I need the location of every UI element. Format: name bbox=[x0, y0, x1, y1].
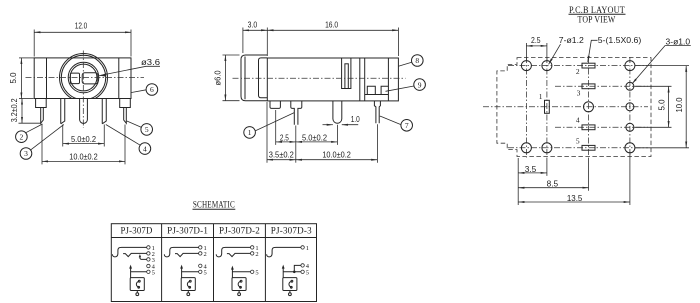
body outline bbox=[34, 58, 131, 99]
svg-text:3.5±0.2: 3.5±0.2 bbox=[269, 151, 295, 160]
dim 13.5 pcb ext bbox=[629, 152, 631, 205]
pin 4 bbox=[102, 99, 106, 124]
cell 3 PJ-307D-2 bbox=[216, 245, 258, 296]
balloon 5 bbox=[127, 121, 153, 135]
dim 2.5 side ext bbox=[275, 110, 277, 145]
svg-text:8: 8 bbox=[415, 56, 419, 65]
wire switch 2 bbox=[123, 253, 147, 256]
wire 5 bbox=[182, 271, 199, 273]
svg-text:8.5: 8.5 bbox=[547, 180, 559, 189]
dim 8.5 pcb line bbox=[518, 187, 588, 189]
svg-text:5: 5 bbox=[204, 269, 207, 276]
pad c3r5 rect bbox=[582, 145, 595, 150]
svg-text:PJ-307D-2: PJ-307D-2 bbox=[219, 226, 260, 236]
terminal 5 bbox=[251, 270, 254, 273]
svg-text:5.0±0.2: 5.0±0.2 bbox=[71, 135, 97, 144]
svg-text:PJ-307D: PJ-307D bbox=[121, 226, 153, 236]
terminal 4 bbox=[147, 264, 150, 267]
terminal 1 bbox=[301, 246, 304, 249]
row 1 centerline bbox=[508, 65, 648, 67]
svg-text:3: 3 bbox=[577, 89, 581, 98]
dim 5.0+-0.2 extensions bbox=[62, 125, 64, 147]
dim 5.0 pcb ext bbox=[635, 85, 672, 87]
left post line bbox=[46, 58, 48, 99]
dim 12.0 line bbox=[34, 31, 131, 33]
dim 3.5+-0.2 line bbox=[267, 159, 296, 161]
column divider 2 bbox=[213, 224, 215, 302]
terminal 2 bbox=[251, 252, 254, 255]
sleeve arrow bbox=[231, 266, 234, 270]
dim 2.5 pcb ext bbox=[525, 43, 527, 61]
dim 3.0 line bbox=[243, 29, 267, 31]
pad c1r1 bbox=[521, 61, 531, 71]
pad c4r5 bbox=[625, 143, 635, 153]
dim 5.0 side ext bbox=[336, 125, 338, 145]
sleeve arm bbox=[181, 268, 183, 278]
pin 5 stub bbox=[120, 99, 131, 108]
dim 12.0 extension lines bbox=[33, 30, 35, 57]
svg-text:3.5: 3.5 bbox=[525, 165, 537, 174]
svg-text:2: 2 bbox=[20, 132, 24, 141]
wire tip contact bbox=[267, 247, 301, 257]
face ring bbox=[259, 58, 268, 98]
svg-text:5: 5 bbox=[306, 269, 309, 276]
body bbox=[267, 58, 398, 101]
horizontal centerline bbox=[26, 77, 145, 79]
balloon 4 bbox=[106, 125, 151, 155]
row 4 centerline bbox=[555, 126, 648, 128]
dim 3.2 line bbox=[21, 99, 23, 124]
dim 3.5 pcb line bbox=[518, 172, 547, 174]
svg-text:4: 4 bbox=[576, 116, 580, 125]
svg-text:5.0±0.2: 5.0±0.2 bbox=[302, 134, 328, 143]
sleeve box bbox=[181, 278, 195, 291]
cell 2 PJ-307D-1 bbox=[164, 245, 207, 296]
svg-text:5.0: 5.0 bbox=[9, 72, 18, 84]
column divider 3 bbox=[264, 224, 266, 302]
svg-text:6: 6 bbox=[150, 85, 154, 94]
tip contact right bbox=[82, 73, 98, 84]
right post line bbox=[118, 58, 120, 99]
sleeve box bbox=[130, 278, 144, 291]
svg-text:5.0: 5.0 bbox=[657, 99, 666, 111]
wire tip contact bbox=[164, 247, 198, 257]
sleeve arrow bbox=[129, 265, 132, 269]
pad c1r5 bbox=[521, 143, 531, 153]
dim 13.5 pcb line bbox=[518, 201, 630, 203]
svg-text:3: 3 bbox=[24, 149, 28, 158]
pin2 leg ext bbox=[295, 126, 297, 163]
dim dia6.0 line bbox=[224, 55, 226, 101]
wire tip contact bbox=[216, 247, 250, 257]
dim 10.0 pcb ext bbox=[635, 65, 690, 67]
pad c4r1 bbox=[625, 61, 635, 71]
svg-text:2: 2 bbox=[576, 67, 580, 76]
pad c3r3 bbox=[584, 102, 594, 112]
sleeve curl bbox=[187, 281, 190, 287]
svg-text:2.5: 2.5 bbox=[531, 36, 541, 45]
sleeve curl bbox=[289, 281, 292, 287]
svg-text:5-(1.5X0.6): 5-(1.5X0.6) bbox=[598, 36, 642, 45]
svg-text:9: 9 bbox=[418, 80, 422, 89]
cell 1 PJ-307D bbox=[112, 245, 155, 296]
barrel outer circle 2 bbox=[61, 55, 105, 99]
pad c4r3 bbox=[626, 103, 634, 111]
pin 2 stub and leg bbox=[291, 101, 302, 125]
wire 5 bbox=[232, 271, 250, 273]
dim 16.0 extension mid bbox=[266, 28, 268, 57]
svg-text:1: 1 bbox=[248, 128, 252, 137]
dim dia6.0 extensions bbox=[223, 54, 240, 56]
svg-text:2: 2 bbox=[255, 251, 258, 258]
junction dot bbox=[293, 271, 296, 274]
dim 1.0 lines bbox=[323, 124, 333, 126]
centerline bbox=[233, 77, 406, 79]
dim 10.0+-0.2 line bbox=[42, 160, 125, 162]
dim 10 ext right bbox=[376, 124, 378, 163]
hidden outline bbox=[497, 58, 651, 157]
pin stub 1 bbox=[270, 101, 280, 109]
wire 5 bbox=[131, 271, 147, 273]
svg-text:5: 5 bbox=[152, 269, 155, 276]
ground pin bbox=[136, 291, 138, 293]
svg-text:3-ø1.0: 3-ø1.0 bbox=[666, 37, 691, 46]
terminal 1 bbox=[147, 246, 150, 249]
pin middle bbox=[333, 101, 342, 123]
svg-text:13.5: 13.5 bbox=[567, 194, 583, 203]
svg-text:5: 5 bbox=[576, 137, 580, 146]
col 4 centerline bbox=[629, 57, 631, 158]
row 3 centerline bbox=[483, 106, 648, 108]
barrel bbox=[241, 55, 267, 101]
inner right vertical bbox=[387, 58, 389, 101]
svg-text:12.0: 12.0 bbox=[75, 21, 88, 30]
wire 4 bbox=[294, 265, 301, 271]
svg-text:1.0: 1.0 bbox=[351, 115, 360, 124]
dim 16.0 line bbox=[267, 29, 398, 31]
svg-text:4: 4 bbox=[143, 144, 147, 153]
tip contact left bbox=[70, 73, 79, 84]
ground pin bbox=[289, 291, 291, 293]
wire contact 3 bbox=[140, 257, 147, 259]
svg-text:2: 2 bbox=[204, 251, 207, 258]
sleeve arm bbox=[130, 268, 132, 278]
svg-text:3.2±0.2: 3.2±0.2 bbox=[10, 98, 19, 122]
dim 3.0 extension bbox=[242, 28, 244, 54]
pad c3r4 rect bbox=[582, 125, 595, 130]
svg-text:7: 7 bbox=[405, 121, 409, 130]
svg-text:ø6.0: ø6.0 bbox=[214, 70, 223, 86]
dim 3.5 pcb ext bbox=[517, 158, 519, 205]
svg-text:5: 5 bbox=[255, 269, 258, 276]
header separator bbox=[111, 237, 316, 239]
dim 10.0+-0.2 extensions bbox=[41, 125, 43, 165]
svg-text:ø3.6: ø3.6 bbox=[141, 58, 161, 67]
pad c2r3 rect vertical bbox=[545, 100, 550, 113]
balloon 3 bbox=[20, 125, 64, 160]
col 3 centerline bbox=[588, 57, 590, 158]
balloon 9 bbox=[386, 79, 426, 92]
slot outer bbox=[342, 58, 351, 89]
dim 8.5 pcb ext bbox=[588, 158, 590, 191]
divider lines bbox=[359, 58, 361, 101]
label dia3.6 leader bbox=[99, 66, 160, 75]
wire switch 2 bbox=[227, 253, 251, 256]
terminal 5 bbox=[147, 270, 150, 273]
pad c2r1 bbox=[542, 61, 552, 71]
wire 5 bbox=[283, 271, 301, 273]
dim 5.0+-0.2 side line bbox=[296, 141, 338, 143]
barrel outer circle bbox=[60, 54, 108, 102]
pin right bbox=[374, 101, 380, 123]
wire tip contact bbox=[112, 247, 146, 257]
table frame bbox=[111, 224, 316, 302]
terminal 4 bbox=[301, 264, 304, 267]
dim 2.5 pcb line bbox=[526, 45, 547, 47]
vertical centerline bbox=[82, 51, 84, 129]
svg-text:1: 1 bbox=[306, 245, 309, 252]
wire switch 2 bbox=[175, 253, 199, 256]
terminal 4 bbox=[199, 264, 202, 267]
svg-text:PJ-307D-1: PJ-307D-1 bbox=[167, 226, 208, 236]
balloon 2 bbox=[16, 124, 43, 143]
pin 2 bbox=[61, 99, 65, 124]
terminal 2 bbox=[147, 252, 150, 255]
barrel inner circle bbox=[68, 62, 99, 93]
balloon 1 bbox=[244, 113, 295, 139]
svg-text:10.0±0.2: 10.0±0.2 bbox=[322, 151, 351, 160]
dim 3.5 ext left bbox=[266, 102, 268, 163]
ground pin bbox=[238, 291, 240, 293]
sleeve arrow bbox=[180, 265, 183, 269]
balloon 7 bbox=[380, 116, 413, 131]
svg-text:2.5: 2.5 bbox=[280, 134, 289, 143]
svg-text:TOP VIEW: TOP VIEW bbox=[578, 16, 616, 26]
pad c4r4 bbox=[626, 123, 634, 131]
pad c2r5 bbox=[542, 143, 552, 153]
svg-text:5: 5 bbox=[145, 125, 149, 134]
sleeve box bbox=[232, 278, 246, 291]
column divider 1 bbox=[161, 224, 163, 302]
row 2 centerline bbox=[555, 85, 648, 87]
dim 16.0 extension bbox=[397, 28, 399, 57]
pin 1 stub bbox=[36, 99, 47, 108]
svg-text:PJ-307D-3: PJ-307D-3 bbox=[271, 226, 312, 236]
slot inner bbox=[345, 64, 348, 89]
notch step bbox=[365, 86, 389, 94]
balloon 8 bbox=[398, 55, 423, 67]
terminal 3 bbox=[147, 258, 150, 261]
terminal 1 bbox=[199, 246, 202, 249]
dim 5.0 pcb line bbox=[668, 86, 670, 127]
pin 1 thin bbox=[41, 108, 44, 124]
svg-text:16.0: 16.0 bbox=[325, 21, 338, 30]
sleeve arm bbox=[282, 268, 284, 278]
ground pin bbox=[187, 291, 189, 293]
pad c4r2 bbox=[626, 82, 634, 90]
dim 10.0 pcb line bbox=[685, 66, 687, 148]
pin 5 thin bbox=[124, 108, 127, 124]
svg-text:7-ø1.2: 7-ø1.2 bbox=[559, 36, 585, 45]
pad c3r2 rect bbox=[582, 84, 595, 89]
dim 5.0+-0.2 line bbox=[63, 143, 105, 145]
svg-text:10.0±0.2: 10.0±0.2 bbox=[69, 153, 98, 162]
sleeve curl bbox=[238, 281, 241, 287]
dim 5.0 left extension lines bbox=[19, 57, 34, 59]
terminal 5 bbox=[301, 270, 304, 273]
pin 3 center bbox=[80, 99, 88, 124]
col 2 centerline bbox=[546, 57, 548, 158]
svg-text:1: 1 bbox=[539, 92, 543, 101]
dim 2.5 side line bbox=[276, 141, 296, 143]
col 1 centerline bbox=[525, 57, 527, 158]
barrel inner circle 2 bbox=[70, 64, 97, 91]
sleeve box bbox=[283, 278, 297, 291]
svg-text:10.0: 10.0 bbox=[675, 97, 684, 113]
balloon 6 bbox=[132, 84, 158, 96]
pad c3r1 rect bbox=[582, 63, 595, 68]
dim 10.0+-0.2 side line bbox=[296, 159, 378, 161]
svg-text:3.0: 3.0 bbox=[248, 21, 258, 30]
terminal 2 bbox=[199, 252, 202, 255]
dim 5.0 left line bbox=[20, 58, 22, 99]
sleeve arm bbox=[231, 269, 233, 278]
sleeve arrow bbox=[282, 265, 285, 269]
terminal 5 bbox=[199, 270, 202, 273]
cell 4 PJ-307D-3 bbox=[267, 245, 310, 296]
arrow 3 bbox=[139, 254, 141, 257]
row 5 centerline bbox=[508, 147, 648, 149]
terminal 1 bbox=[251, 246, 254, 249]
sleeve curl bbox=[136, 281, 139, 287]
barrel edge line bbox=[244, 57, 246, 100]
